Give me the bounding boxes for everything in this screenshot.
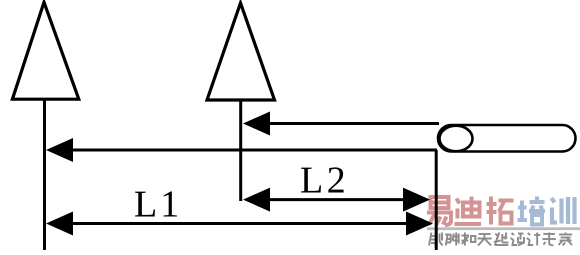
watermark small gray text row [429,233,572,246]
wire: middle dimension line from cylinder vertical to mast 1 [69,149,437,152]
watermark char 2 (red) [455,197,482,225]
watermark char 4 (blue) [518,197,546,225]
L1 left arrowhead [46,212,73,236]
L2 left arrowhead [243,188,270,212]
label L2 [301,168,321,193]
dimension L1 line [67,222,409,225]
mast 1 (left vertical line) [43,99,46,250]
watermark char 5 (blue) [552,197,575,224]
cylinder element (capsule body) [438,125,576,152]
wire: top dimension line from cylinder to mast 2 [266,122,439,125]
dimension L2 line [264,198,406,201]
watermark char 3 (red) [487,197,514,225]
mast 2 (right vertical line) [239,100,242,201]
node line: vertical reference line at cylinder [435,150,438,250]
watermark char 1 (red) [427,197,453,225]
antenna 2 (right triangle) [207,3,275,100]
label L1 [135,192,155,217]
arrowhead left at mast 1 [46,138,73,162]
antenna 1 (left triangle) [12,2,78,99]
L2 right arrowhead [403,188,430,212]
L1 right arrowhead [406,212,433,236]
watermark underline bar [427,227,580,230]
cylinder end cap (ellipse) [440,126,473,152]
arrowhead left at mast 2 [243,112,270,136]
